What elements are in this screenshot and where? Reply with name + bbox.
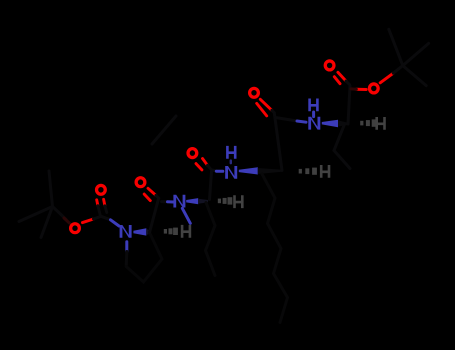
amide 3 carbonyl O5 bbox=[250, 88, 259, 97]
double bond C=O6 bbox=[334, 72, 346, 83]
wedge bond N4 to alphaC4 bbox=[322, 120, 338, 128]
hashed wedge alphaC4 to H bbox=[360, 119, 376, 126]
amide nitrogen N3 bbox=[225, 166, 237, 179]
amide 2 carbonyl O4 bbox=[188, 149, 197, 158]
H on N3 bbox=[226, 146, 236, 159]
wire faint fragment upper-left of O4 bbox=[152, 116, 176, 144]
hashed wedge alphaC2 to H bbox=[218, 197, 233, 204]
wire amide3 C to N4 bbox=[276, 118, 298, 122]
ring bond N1-C5 (blue half) bbox=[125, 242, 128, 252]
wedge bond N3 to alphaC3 bbox=[239, 167, 258, 174]
wedge bond N2 to alphaC2 bbox=[186, 198, 198, 204]
N2-H bond (diagonal) bbox=[182, 208, 190, 223]
carbonyl O2 of Boc carbamate bbox=[97, 185, 106, 194]
wire alphaC2 up to amide2 carbonyl bbox=[210, 172, 212, 200]
side chain of alphaC3 bbox=[262, 174, 288, 323]
pyrrolidine ring carbons bbox=[126, 233, 162, 283]
wedge bond N1 to proline alpha carbon bbox=[133, 228, 146, 235]
stereo H on proline alpha carbon bbox=[181, 225, 191, 238]
stereo H on alphaC2 bbox=[233, 195, 243, 208]
wire amide2 C to N3 bbox=[212, 170, 217, 171]
wire alphaC4 up to ester carbonyl bbox=[348, 86, 350, 124]
amide nitrogen N4 bbox=[308, 117, 320, 130]
ester carbonyl O6 bbox=[325, 61, 334, 70]
wire alphaC1 up to amide carbonyl bbox=[150, 199, 159, 233]
side chain of alphaC2 bbox=[206, 203, 216, 276]
amide 1 carbonyl O3 bbox=[136, 178, 145, 187]
wire O1 to carbamate carbonyl C bbox=[83, 219, 94, 223]
H on N4 bbox=[308, 99, 318, 112]
double bond C=O4 bbox=[196, 159, 208, 170]
hashed wedge alphaC1 to H bbox=[164, 228, 178, 235]
side chain of alphaC4 bbox=[334, 126, 350, 169]
double bond C=O2 (red halves near O) bbox=[97, 199, 105, 206]
tert-butyl group (ester) arms bbox=[389, 29, 429, 85]
amide nitrogen N2 bbox=[173, 195, 185, 208]
ester oxygen O7 bbox=[369, 84, 378, 93]
double bond C=O3 bbox=[144, 188, 156, 200]
ester oxygen O1 of Boc bbox=[71, 224, 80, 233]
double bond C=O5 bbox=[257, 99, 272, 116]
wire O7 to tBu quaternary carbon bbox=[380, 73, 393, 83]
N4-H bond bbox=[312, 112, 315, 117]
wire ester C to O7 bbox=[356, 88, 366, 91]
N3-H bond bbox=[230, 161, 232, 164]
stereo H on alphaC4 bbox=[375, 117, 385, 130]
pyrrolidine nitrogen N1 bbox=[120, 225, 132, 238]
stereo H on alphaC3 bbox=[320, 165, 330, 178]
hashed wedge alphaC3 to H bbox=[299, 168, 317, 175]
wire amide1 C to N2 bbox=[162, 200, 168, 203]
tert-butyl group (Boc) quaternary carbon arms bbox=[19, 171, 66, 238]
wire O1 to Boc tBu (red half near O) bbox=[64, 218, 70, 223]
wire carbamate C to N1 bbox=[101, 216, 111, 220]
wire alphaC3 up to amide3 carbonyl bbox=[274, 113, 282, 171]
